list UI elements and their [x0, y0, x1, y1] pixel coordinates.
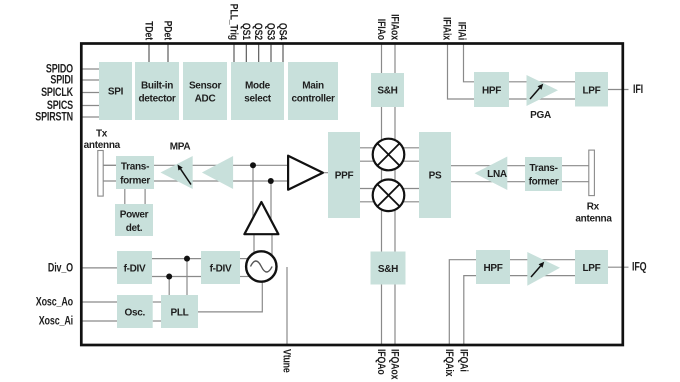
wire drop to PLL left [168, 277, 170, 296]
wire IFIAix to HPF [448, 43, 475, 99]
svg-text:QS3: QS3 [264, 23, 276, 41]
svg-text:IFIAo: IFIAo [375, 19, 387, 40]
svg-text:IFQAo: IFQAo [375, 349, 387, 375]
svg-text:select: select [244, 94, 272, 105]
wire IFIAo / IFQAo column [381, 43, 383, 345]
wire PPF-mixer1 upper [360, 147, 419, 149]
svg-text:Div_O: Div_O [48, 262, 73, 274]
wire buffer to VCO right [271, 234, 273, 259]
block Sensor ADC [183, 62, 227, 120]
wire LPF to IFI pin [608, 89, 629, 91]
wire SPIDO [81, 68, 99, 70]
wire TDet stub [148, 44, 150, 62]
svg-text:f-DIV: f-DIV [210, 264, 232, 275]
svg-text:QS1: QS1 [239, 23, 251, 41]
wire Tx antenna feed [103, 164, 116, 166]
wire IFQAi to HPF bottom [464, 276, 476, 345]
svg-text:antenna: antenna [84, 140, 121, 151]
wire PS to Rx transformer upper [451, 165, 589, 167]
junction dot A (TX upper) [250, 162, 256, 168]
svg-text:IFIAix: IFIAix [440, 17, 452, 41]
block Main controller [288, 62, 338, 120]
svg-text:LNA: LNA [487, 169, 507, 180]
svg-text:Main: Main [302, 81, 324, 92]
wire PPF-mixer2 lower [360, 201, 419, 203]
wire HPF-PGA-LPF IFI lower [509, 98, 575, 100]
svg-text:Osc.: Osc. [125, 308, 146, 319]
svg-text:det.: det. [126, 223, 143, 234]
svg-text:detector: detector [138, 94, 175, 105]
svg-text:LPF: LPF [583, 86, 601, 97]
MPA gain arrow [178, 165, 192, 185]
block Mode select [231, 62, 284, 120]
PGA gain arrow (IFQ) [531, 262, 544, 277]
wire PA to PPF [300, 172, 328, 174]
block HPF (IFI) [474, 72, 509, 107]
outer border [81, 44, 623, 346]
block SPI [99, 62, 132, 120]
wire Xosc_Ai [81, 320, 117, 322]
wire HPF-PGA-LPF IFQ lower [510, 275, 575, 277]
svg-text:LPF: LPF [583, 263, 601, 274]
svg-text:MPA: MPA [170, 142, 191, 153]
svg-text:Trans-: Trans- [529, 163, 557, 174]
svg-text:antenna: antenna [575, 214, 612, 225]
wire f-DIV1 to f-DIV2 upper [152, 258, 201, 260]
svg-text:former: former [529, 177, 559, 188]
wire Tx differential upper [103, 164, 290, 166]
svg-text:S&H: S&H [377, 86, 397, 97]
svg-text:HPF: HPF [482, 86, 501, 97]
svg-text:S&H: S&H [378, 264, 398, 275]
svg-text:PDet: PDet [161, 21, 173, 41]
wire transformer to power det left [124, 189, 126, 204]
svg-text:ADC: ADC [195, 94, 216, 105]
svg-text:IFIAi: IFIAi [455, 22, 467, 41]
svg-text:SPICLK: SPICLK [41, 87, 74, 99]
block PPF [328, 132, 360, 218]
svg-text:PLL_Trig: PLL_Trig [227, 4, 239, 40]
block LPF (IFI) [575, 72, 608, 107]
svg-text:PLL: PLL [171, 308, 189, 319]
wire PLL to VCO [198, 282, 262, 312]
wire PPF-mixer2 upper [360, 188, 419, 190]
block Osc. [117, 295, 153, 328]
wire f-DIV2 to VCO upper [240, 258, 250, 260]
wire QS1 stub [245, 44, 247, 62]
svg-text:Sensor: Sensor [189, 81, 222, 92]
wire PDet stub [167, 44, 169, 62]
svg-text:SPI: SPI [108, 87, 124, 98]
wire Div_O [81, 267, 117, 269]
amplifier MPA stage 1 (variable) [161, 156, 193, 189]
wire f-DIV2 to VCO lower [240, 276, 250, 278]
svg-text:f-DIV: f-DIV [124, 264, 146, 275]
amplifier PGA (IFQ) [527, 252, 560, 286]
wire f-DIV1 to f-DIV2 lower [152, 276, 201, 278]
PGA gain arrow (IFI) [530, 84, 543, 99]
svg-text:Xosc_Ao: Xosc_Ao [36, 297, 73, 309]
svg-text:controller: controller [291, 94, 335, 105]
svg-text:PPF: PPF [335, 171, 354, 182]
svg-text:Mode: Mode [245, 81, 271, 92]
wire HPF-PGA-LPF IFQ upper [510, 259, 575, 261]
svg-text:Tx: Tx [96, 129, 108, 140]
svg-text:PS: PS [429, 171, 442, 182]
block Rx transformer [525, 157, 562, 191]
wire SPIRSTN [81, 116, 99, 118]
svg-text:Xosc_Ai: Xosc_Ai [39, 316, 74, 328]
power amplifier (output buffer) triangle [288, 156, 323, 190]
wire QS3 stub [270, 44, 272, 62]
wire LPF to IFQ pin [608, 266, 629, 268]
junction dot D (f-DIV upper) [184, 256, 190, 262]
wire Tx differential lower [103, 180, 290, 182]
wire drop to buffer left [252, 165, 254, 220]
block Power det. [115, 204, 153, 236]
svg-text:IFIAox: IFIAox [388, 14, 400, 40]
svg-text:IFQAi: IFQAi [457, 349, 469, 372]
svg-text:Trans-: Trans- [121, 162, 149, 173]
svg-text:former: former [120, 176, 150, 187]
wire buffer to VCO left [253, 234, 255, 257]
wire IFIAi to HPF [464, 43, 475, 82]
wire QS4 stub [282, 44, 284, 62]
amplifier PGA (IFI) [527, 75, 559, 106]
block S&H bottom [371, 252, 406, 285]
block HPF (IFQ) [476, 250, 510, 284]
wire Osc to PLL upper [153, 301, 161, 303]
wire PS to Rx transformer lower [451, 181, 589, 183]
wire SPIDI [81, 79, 99, 81]
mixer 1 (I) [373, 139, 405, 171]
svg-text:IFQAox: IFQAox [388, 349, 400, 380]
wire Vtune [286, 267, 288, 345]
svg-text:SPICS: SPICS [47, 100, 73, 112]
svg-text:TDet: TDet [142, 21, 154, 41]
svg-text:IFQ: IFQ [632, 262, 647, 274]
junction dot B (TX lower) [268, 178, 274, 184]
svg-text:Vtune: Vtune [280, 349, 292, 373]
block PS [419, 132, 451, 218]
block Tx transformer [116, 156, 154, 189]
amplifier MPA stage 2 [202, 156, 233, 189]
wire drop to PLL right [186, 259, 188, 295]
VCO buffer triangle (up) [244, 202, 278, 234]
svg-text:QS4: QS4 [276, 23, 288, 41]
wire Xosc_Ao [81, 301, 117, 303]
wire IFQAix to HPF bottom [449, 260, 476, 345]
wire Osc to PLL lower [153, 320, 161, 322]
wire HPF-PGA-LPF IFI upper [509, 81, 575, 83]
Tx antenna symbol [98, 151, 103, 197]
svg-text:Power: Power [120, 210, 149, 221]
svg-text:QS2: QS2 [252, 23, 264, 41]
wire transformer to power det right [144, 189, 146, 204]
mixer 2 (Q) [373, 180, 405, 212]
block LPF (IFQ) [575, 250, 608, 284]
wire IFIAox / IFQAox column [394, 43, 396, 345]
wire PPF-mixer1 lower [360, 160, 419, 162]
Rx antenna symbol [589, 150, 595, 196]
svg-text:SPIRSTN: SPIRSTN [35, 112, 73, 124]
wire QS2 stub [258, 44, 260, 62]
svg-text:PGA: PGA [530, 110, 551, 121]
svg-text:Rx: Rx [587, 202, 600, 213]
svg-text:IFI: IFI [633, 84, 643, 96]
wire PLL_Trig stub [233, 44, 235, 62]
oscillator VCO circle [246, 251, 276, 281]
block f-DIV 2 [201, 251, 240, 284]
svg-text:HPF: HPF [483, 263, 502, 274]
block f-DIV 1 [117, 251, 152, 284]
svg-text:SPIDI: SPIDI [50, 75, 73, 87]
block S&H top [371, 73, 404, 107]
block Built-in detector [135, 62, 179, 120]
wire SPICS [81, 105, 99, 107]
block PLL [161, 295, 198, 328]
junction dot C (f-DIV lower) [166, 274, 172, 280]
wire drop to buffer right [270, 181, 272, 222]
amplifier LNA [475, 157, 508, 191]
wire SPICLK [81, 92, 99, 94]
svg-text:Built-in: Built-in [141, 81, 173, 92]
svg-text:IFQAix: IFQAix [442, 349, 454, 377]
